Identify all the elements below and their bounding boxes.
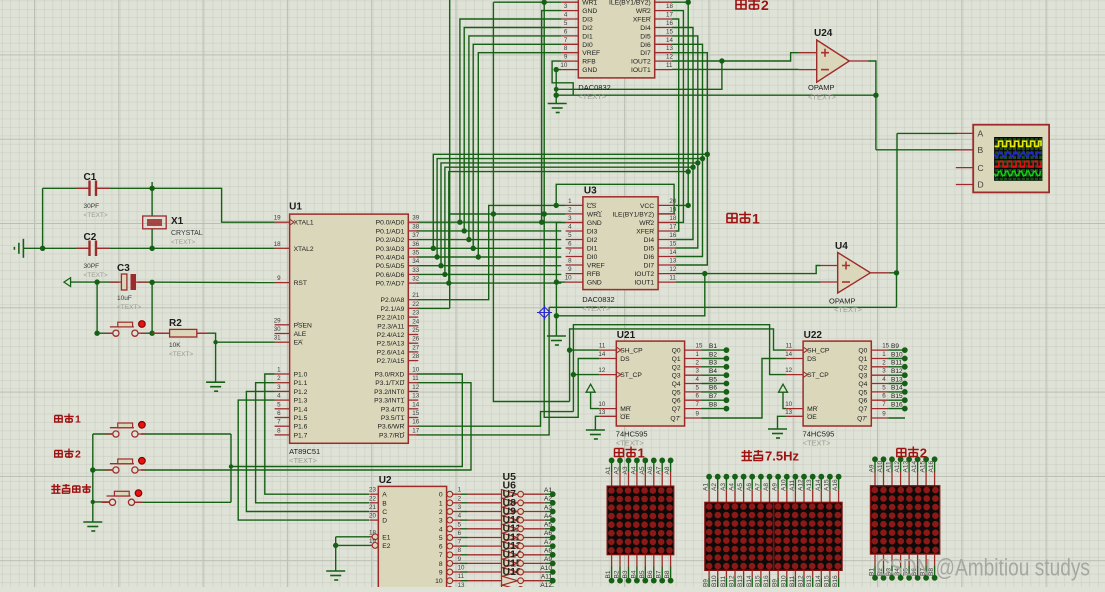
- pin U22 Q6: [858, 393, 888, 405]
- terminal A14 matrix3: [915, 456, 921, 462]
- svg-text:25: 25: [412, 327, 419, 334]
- pin U1 PSEN: [274, 317, 312, 329]
- svg-text:B6: B6: [647, 570, 654, 578]
- pin matrix2 bottom 6: [760, 570, 762, 578]
- pin matrix2 bottom 5: [751, 570, 753, 578]
- junction X1 bottom: [149, 246, 154, 251]
- pin U3 left 3: [566, 224, 598, 236]
- pin matrix1 top 1: [619, 472, 621, 486]
- junction staircase 3: [471, 246, 476, 251]
- svg-text:P2.7/A15: P2.7/A15: [377, 358, 405, 365]
- svg-text:Q0: Q0: [858, 348, 867, 355]
- svg-text:32: 32: [412, 276, 419, 283]
- wire chain to button3: [93, 501, 109, 503]
- wire matrix2 bottom 5: [751, 578, 753, 587]
- svg-text:14: 14: [412, 401, 419, 408]
- wire WR1 row: [450, 213, 566, 215]
- svg-text:10: 10: [598, 401, 605, 408]
- wire button3 right: [134, 501, 232, 503]
- terminal A9 matrix3: [872, 456, 878, 462]
- pin U2 out 11: [436, 582, 465, 592]
- terminal B3 matrix3: [889, 575, 895, 581]
- svg-text:WR1: WR1: [582, 0, 597, 7]
- svg-text:DI1: DI1: [587, 246, 598, 253]
- svg-text:OE: OE: [807, 414, 817, 421]
- pin matrix3 top 6: [925, 472, 927, 486]
- pin U21 Q2: [672, 359, 702, 371]
- svg-text:1: 1: [638, 446, 645, 461]
- wire E down: [335, 537, 337, 571]
- wire matrix2 bottom 3: [734, 578, 736, 587]
- pin matrix1 bottom 5: [653, 555, 655, 567]
- svg-text:SH_CP: SH_CP: [807, 348, 830, 355]
- wire data bundle 1: [437, 159, 702, 257]
- svg-text:10: 10: [435, 578, 443, 585]
- terminal B13: [902, 381, 908, 387]
- pin U23 left VREF: [561, 45, 600, 57]
- button reset: [110, 321, 145, 337]
- svg-text:13: 13: [598, 409, 605, 416]
- svg-text:A9: A9: [544, 556, 552, 563]
- pin matrix2 top 3: [734, 489, 736, 502]
- svg-text:SH_CP: SH_CP: [620, 348, 643, 355]
- junction U23 gnd: [554, 67, 559, 72]
- svg-text:10: 10: [412, 367, 419, 374]
- svg-text:E1: E1: [382, 534, 390, 541]
- svg-text:B16: B16: [832, 575, 839, 587]
- svg-text:22: 22: [369, 495, 376, 502]
- wire U2 out 8: [460, 562, 468, 564]
- wire P0.6 bus row: [417, 273, 562, 275]
- wire matrix2 bottom 7: [769, 578, 771, 587]
- junction button2: [90, 467, 95, 472]
- svg-text:38: 38: [412, 223, 419, 230]
- wire matrix2 bottom 8: [777, 578, 779, 587]
- wire matrix2 top 6 green: [760, 477, 762, 489]
- pin U3 right 4: [644, 232, 677, 244]
- ground button chain: [83, 522, 102, 531]
- pin U22 Q7: [858, 401, 888, 413]
- pin matrix2 top 15: [838, 489, 840, 502]
- pin U1 P2.3: [377, 318, 419, 330]
- wire U2 out 5: [460, 537, 468, 539]
- pin U1 P3.2: [374, 384, 420, 396]
- svg-text:17: 17: [666, 12, 673, 19]
- svg-text:XFER: XFER: [633, 17, 651, 24]
- pin matrix1 top 3: [636, 472, 638, 486]
- svg-text:5: 5: [568, 232, 572, 239]
- terminal A8 matrix1: [668, 458, 674, 464]
- pin U1 P0.4: [376, 250, 420, 262]
- wire matrix2 top 13 green: [820, 477, 822, 489]
- pin matrix1 bottom 4: [644, 555, 646, 567]
- svg-text:Q4: Q4: [858, 381, 867, 388]
- svg-text:P2.5/A13: P2.5/A13: [377, 341, 405, 348]
- wire matrix2 bottom 12: [812, 578, 814, 587]
- svg-text:A13: A13: [806, 479, 813, 491]
- wire U22 Q4 to B13: [888, 383, 905, 385]
- DAC U23 (DAC0832, top): [578, 0, 654, 101]
- terminal B8: [724, 406, 730, 412]
- pin U1 P1.5: [275, 410, 308, 422]
- svg-text:B1: B1: [605, 570, 612, 578]
- svg-text:ILE(BY1/BY2): ILE(BY1/BY2): [609, 0, 651, 7]
- svg-text:A8: A8: [763, 483, 770, 491]
- wire X1 top stub: [151, 182, 153, 216]
- pin U1 ALE: [274, 326, 307, 338]
- svg-text:B14: B14: [815, 575, 822, 587]
- wire U22 Q7' stub: [888, 417, 905, 419]
- svg-text:<TEXT>: <TEXT>: [834, 305, 863, 314]
- wire matrix1 bottom 6: [661, 567, 663, 581]
- wire matrix3 bottom 4: [908, 566, 910, 578]
- svg-text:19: 19: [669, 206, 676, 213]
- svg-text:A4: A4: [544, 513, 552, 520]
- svg-text:P1.5: P1.5: [294, 415, 308, 422]
- pin U23 right 4: [640, 28, 673, 40]
- svg-text:P1.3: P1.3: [294, 398, 308, 405]
- svg-text:P0.7/AD7: P0.7/AD7: [376, 281, 405, 288]
- ground U21 CE: [586, 430, 605, 439]
- wire matrix2 top 12 green: [812, 477, 814, 489]
- svg-text:11: 11: [786, 343, 793, 350]
- svg-text:7: 7: [568, 249, 572, 256]
- svg-text:4: 4: [696, 376, 700, 383]
- pin stubs C3: [109, 281, 148, 283]
- wire U21 Q0 to B1: [702, 349, 727, 351]
- svg-text:VREF: VREF: [582, 50, 600, 57]
- svg-text:A6: A6: [746, 483, 753, 491]
- pin U2 D: [369, 513, 387, 525]
- svg-text:B3: B3: [709, 360, 717, 367]
- terminal A6 matrix1: [651, 458, 657, 464]
- pin U23 left RFB: [561, 54, 596, 66]
- svg-text:A11: A11: [886, 461, 893, 472]
- pin U22 Q0: [858, 343, 889, 355]
- svg-text:ST_CP: ST_CP: [620, 372, 642, 379]
- terminal B4 matrix3: [898, 575, 904, 581]
- junction U21 SH_CP: [567, 347, 572, 352]
- pin U1 P0.7: [376, 276, 420, 288]
- pin U1 P3.3: [374, 393, 420, 405]
- svg-text:<TEXT>: <TEXT>: [84, 212, 108, 219]
- terminal B7: [724, 397, 730, 403]
- svg-text:31: 31: [274, 335, 281, 342]
- svg-text:4: 4: [564, 12, 568, 19]
- svg-text:Q3: Q3: [858, 373, 867, 380]
- pin matrix2 top 11: [803, 489, 805, 502]
- svg-text:A7: A7: [656, 466, 663, 474]
- label 通道1 (button): [55, 416, 63, 423]
- svg-text:IOUT1: IOUT1: [631, 67, 651, 74]
- wire U22 Q7 to B16: [888, 408, 905, 410]
- svg-text:7: 7: [696, 401, 700, 408]
- svg-text:DI3: DI3: [587, 229, 598, 236]
- svg-text:5: 5: [439, 535, 443, 542]
- terminal B2 matrix1: [617, 578, 623, 584]
- svg-text:P3.3/INT1: P3.3/INT1: [374, 398, 404, 405]
- svg-text:14: 14: [598, 351, 605, 358]
- wire matrix2 top 0 green: [708, 477, 710, 489]
- svg-text:B10: B10: [711, 575, 718, 587]
- pin matrix3 bottom 2: [891, 554, 893, 566]
- pin U2 out 4: [439, 521, 462, 533]
- LED matrix 2 right half (8x8): [774, 502, 842, 570]
- svg-text:8: 8: [277, 427, 281, 434]
- pin matrix3 top 0: [874, 472, 876, 486]
- svg-text:17: 17: [669, 224, 676, 231]
- svg-text:Q7: Q7: [672, 406, 681, 413]
- svg-text:15: 15: [882, 343, 889, 350]
- pin buffer out 11 and terminal A12: [518, 582, 556, 592]
- svg-text:9: 9: [439, 570, 443, 577]
- terminal A2 matrix1: [617, 458, 623, 464]
- label 通道1 middle: [727, 214, 737, 223]
- pin matrix3 bottom 4: [908, 554, 910, 566]
- svg-text:P2.3/A11: P2.3/A11: [377, 323, 404, 330]
- pin U21 ST_CP: [598, 367, 642, 379]
- svg-text:ILE(BY1/BY2): ILE(BY1/BY2): [612, 211, 654, 218]
- wire U24 out to scope B: [868, 61, 876, 150]
- pin U21 Q3: [672, 368, 702, 380]
- terminal B7 matrix1: [659, 578, 665, 584]
- svg-text:11: 11: [412, 375, 419, 382]
- svg-text:2: 2: [277, 375, 281, 382]
- wire matrix1 bottom 7: [670, 567, 672, 581]
- svg-text:10: 10: [785, 401, 792, 408]
- svg-text:37: 37: [412, 232, 419, 239]
- pin matrix2 bottom 10: [794, 570, 796, 578]
- wire button chain vertical: [92, 434, 94, 522]
- pin U1 P2.7: [377, 353, 420, 365]
- svg-text:Q2: Q2: [858, 364, 867, 371]
- junction CS-ILE: [554, 203, 559, 208]
- svg-text:Q7': Q7': [857, 416, 867, 423]
- svg-text:P1.1: P1.1: [294, 380, 308, 387]
- svg-text:B3: B3: [622, 570, 629, 578]
- svg-text:1: 1: [458, 487, 462, 494]
- svg-text:P3.4/T0: P3.4/T0: [381, 406, 405, 413]
- junction bundle bottom 2: [438, 263, 443, 268]
- LED matrix 1 (8x8): [607, 486, 674, 554]
- pin buffer in 2: [468, 511, 502, 513]
- pin matrix2 top 9: [786, 489, 788, 502]
- pin matrix2 bottom 11: [803, 570, 805, 578]
- terminal A10 matrix2: [784, 474, 790, 480]
- svg-text:7: 7: [439, 552, 443, 559]
- pin U3 right 1: [612, 206, 676, 218]
- terminal A4 matrix2: [732, 474, 738, 480]
- pin U21 MR: [598, 401, 630, 413]
- wire matrix3 bottom 6: [925, 566, 927, 578]
- wire X1 top to XTAL1: [152, 188, 275, 222]
- svg-text:1: 1: [882, 351, 886, 358]
- pin U22 ST_CP: [785, 367, 829, 379]
- label 通道2 above matrix3: [897, 449, 906, 457]
- terminal B14: [902, 389, 908, 395]
- wire matrix3 bottom 0: [874, 566, 876, 578]
- svg-text:MR: MR: [620, 406, 631, 413]
- svg-text:A2: A2: [614, 466, 621, 474]
- svg-text:2: 2: [761, 0, 769, 13]
- svg-text:B9: B9: [772, 579, 779, 587]
- svg-text:P0.5/AD5: P0.5/AD5: [376, 263, 405, 270]
- ground below R2: [206, 382, 225, 391]
- terminal B11: [902, 364, 908, 370]
- pin U23 left DI3: [561, 12, 593, 24]
- svg-text:B13: B13: [806, 575, 813, 587]
- wire matrix1 bottom 5: [653, 567, 655, 581]
- wire H10 to U4 output loop: [549, 306, 896, 308]
- junction GND3-P0.0: [539, 220, 544, 225]
- pin matrix2 top 13: [820, 489, 822, 502]
- svg-text:Q2: Q2: [672, 364, 681, 371]
- junction WR1-ST: [542, 211, 547, 216]
- terminal A10 matrix3: [881, 456, 887, 462]
- pin buffer out 2 and terminal A3: [518, 504, 556, 514]
- svg-text:9: 9: [696, 411, 700, 418]
- svg-text:DI3: DI3: [582, 17, 593, 24]
- svg-text:7: 7: [564, 37, 568, 44]
- svg-text:A6: A6: [647, 466, 654, 474]
- svg-text:13: 13: [412, 393, 419, 400]
- svg-text:OPAMP: OPAMP: [808, 83, 835, 92]
- pin U3 left 6: [566, 249, 598, 261]
- wire U21 Q4 to B5: [702, 383, 727, 385]
- pin matrix1 top 5: [653, 472, 655, 486]
- junction bundle bottom 4: [446, 280, 451, 285]
- pin U3 left 5: [566, 241, 598, 253]
- svg-text:P1.6: P1.6: [294, 424, 308, 431]
- pin matrix2 top 14: [829, 489, 831, 502]
- svg-text:1: 1: [277, 367, 281, 374]
- wire matrix2 bottom 0: [708, 578, 710, 587]
- svg-text:DAC0832: DAC0832: [582, 295, 615, 304]
- svg-text:ST_CP: ST_CP: [807, 372, 829, 379]
- svg-text:A3: A3: [622, 466, 629, 474]
- wire matrix1 bottom 2: [628, 567, 630, 581]
- wire U23 GND3 down: [542, 11, 562, 223]
- wire U23 IOUT1 to U24-: [672, 68, 799, 70]
- capacitor C2: [90, 241, 97, 257]
- svg-text:C: C: [382, 509, 387, 516]
- pin U1 P0.1: [376, 223, 420, 235]
- svg-text:Q4: Q4: [672, 381, 681, 388]
- svg-text:A15: A15: [920, 461, 927, 473]
- pin U1 XTAL1: [274, 215, 314, 227]
- svg-text:DI1: DI1: [582, 33, 593, 40]
- pin U3 left 0: [566, 198, 597, 210]
- svg-text:30PF: 30PF: [84, 263, 100, 270]
- ground bars left of C2: [14, 239, 23, 258]
- pin matrix3 top 1: [883, 472, 885, 486]
- pin U3 left 4: [566, 232, 598, 244]
- svg-text:P3.1/TXD: P3.1/TXD: [375, 380, 404, 387]
- junction H11 left: [554, 313, 559, 318]
- wire ST_CP net to U22: [573, 325, 786, 412]
- pin matrix3 bottom 7: [934, 554, 936, 566]
- svg-text:P2.6/A14: P2.6/A14: [377, 349, 405, 356]
- svg-text:3: 3: [439, 518, 443, 525]
- pin buffer in 9: [468, 571, 502, 573]
- svg-text:B11: B11: [720, 576, 727, 587]
- wire matrix3 top 5 green: [917, 459, 919, 472]
- junction bundle bottom 3: [442, 272, 447, 277]
- wire U21 Q1 to B2: [702, 358, 727, 360]
- capacitor C1: [90, 181, 97, 197]
- svg-text:B14: B14: [891, 385, 903, 392]
- svg-text:B13: B13: [891, 376, 903, 383]
- pin U2 C: [369, 504, 387, 516]
- pin U1 P1.4: [275, 401, 308, 413]
- svg-text:Q6: Q6: [672, 398, 681, 405]
- svg-text:B10: B10: [780, 575, 787, 587]
- wire U21 MR to power: [591, 393, 600, 409]
- svg-text:DI2: DI2: [582, 25, 593, 32]
- svg-text:DI4: DI4: [644, 237, 655, 244]
- junction RST right: [149, 280, 154, 285]
- shift register U21 (74HC595): [616, 330, 685, 448]
- svg-text:A8: A8: [544, 548, 552, 555]
- terminal A8 matrix2: [767, 474, 773, 480]
- wire U22 Q6 to B15: [888, 399, 905, 401]
- svg-text:C: C: [978, 163, 984, 173]
- junction bundle right 3: [690, 165, 695, 170]
- svg-text:B11: B11: [789, 576, 796, 587]
- svg-text:74HC595: 74HC595: [616, 430, 648, 439]
- pin buffer in 4: [468, 528, 502, 530]
- pin U2 out 7: [439, 547, 462, 559]
- wire vertical x449 to top: [449, 0, 451, 308]
- svg-text:A9: A9: [772, 483, 779, 491]
- pin U23 right 0: [609, 0, 672, 7]
- junction IOUT2 U3: [702, 271, 707, 276]
- labels U5-U16: [503, 471, 522, 578]
- pin U1 P0.2: [376, 232, 420, 244]
- terminal A5 matrix1: [642, 458, 648, 464]
- svg-text:A8: A8: [664, 466, 671, 474]
- svg-text:A12: A12: [798, 479, 805, 491]
- svg-text:<TEXT>: <TEXT>: [582, 304, 611, 313]
- svg-text:4: 4: [458, 513, 462, 520]
- svg-text:<TEXT>: <TEXT>: [171, 239, 195, 246]
- pin U21 Q4: [672, 376, 702, 388]
- pin U1 P0.0: [376, 215, 420, 227]
- svg-text:22: 22: [412, 301, 419, 308]
- wire E1: [336, 536, 372, 538]
- svg-text:P3.0/RXD: P3.0/RXD: [375, 372, 405, 379]
- pin buffer in 5: [468, 537, 502, 539]
- wire U23 left pin staircase 2: [469, 36, 561, 240]
- svg-text:A1: A1: [544, 487, 552, 494]
- pin stubs C2: [77, 247, 111, 249]
- terminal B1 matrix1: [609, 578, 615, 584]
- pin buffer out 6 and terminal A7: [518, 539, 556, 549]
- svg-text:P1.2: P1.2: [294, 389, 308, 396]
- wire matrix1 bottom 3: [636, 567, 638, 581]
- svg-text:P2.2/A10: P2.2/A10: [377, 315, 405, 322]
- svg-text:Q1: Q1: [858, 356, 867, 363]
- svg-text:12: 12: [669, 266, 676, 273]
- wire button to R2: [141, 332, 170, 334]
- wire scope B: [876, 149, 957, 151]
- pin buffer out 3 and terminal A4: [518, 513, 556, 523]
- svg-text:9: 9: [568, 266, 572, 273]
- pin buffer in 7: [468, 554, 502, 556]
- terminal A15 matrix3: [923, 456, 929, 462]
- pin matrix1 bottom 1: [619, 555, 621, 567]
- pin buffer out 9 and terminal A10: [518, 565, 556, 575]
